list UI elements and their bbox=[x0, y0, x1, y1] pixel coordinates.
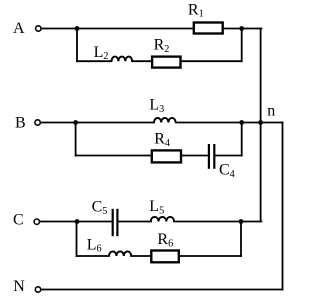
capacitor C4 bbox=[209, 144, 235, 180]
terminal N bbox=[13, 278, 41, 295]
wire phase A main bbox=[42, 28, 194, 30]
capacitor C5 bbox=[92, 199, 118, 237]
inductor L2 bbox=[94, 44, 133, 62]
wire phase C main left bbox=[40, 221, 112, 223]
wire A branch mid bbox=[132, 60, 151, 62]
inductor L6 bbox=[87, 237, 132, 257]
wire C branch left bbox=[77, 255, 110, 257]
wire C main right bbox=[174, 221, 261, 223]
terminal A bbox=[13, 20, 41, 37]
wire A branch right bbox=[181, 60, 242, 62]
junction dot A right bbox=[239, 26, 244, 31]
wire C branch up bbox=[240, 222, 242, 257]
wire C branch mid bbox=[131, 255, 150, 257]
svg-text:n: n bbox=[267, 102, 275, 119]
svg-text:N: N bbox=[13, 278, 25, 295]
junction dot node n bbox=[258, 120, 263, 125]
wire node n to N vertical bbox=[282, 123, 284, 290]
wire B branch left bbox=[76, 155, 151, 157]
junction dot A branch bbox=[75, 26, 80, 31]
wire A branch up bbox=[241, 29, 243, 62]
resistor R2 bbox=[152, 37, 180, 68]
wire B branch down bbox=[75, 123, 77, 156]
wire C branch right bbox=[180, 255, 241, 257]
wire phase B main left bbox=[41, 122, 154, 124]
wire A branch down bbox=[76, 29, 78, 62]
inductor L3 bbox=[149, 97, 175, 123]
inductor L5 bbox=[149, 198, 174, 221]
wire B branch up bbox=[241, 123, 243, 156]
junction dot B right bbox=[239, 120, 244, 125]
wire A after R1 bbox=[224, 28, 261, 30]
junction dot C branch bbox=[75, 219, 80, 224]
junction dot B branch bbox=[73, 120, 78, 125]
resistor R1 bbox=[188, 2, 223, 34]
wire neutral N main bbox=[41, 289, 282, 291]
svg-text:C: C bbox=[13, 212, 24, 229]
resistor R6 bbox=[151, 231, 179, 262]
svg-text:B: B bbox=[15, 115, 26, 132]
wire C between C5 and L5 bbox=[119, 221, 152, 223]
terminal C bbox=[13, 212, 40, 229]
terminal B bbox=[15, 115, 40, 132]
wire C branch down bbox=[76, 222, 78, 257]
wire A branch left bbox=[77, 60, 112, 62]
wire A right vertical to node n bbox=[260, 29, 262, 222]
wire phase B main right bbox=[176, 122, 283, 124]
svg-text:A: A bbox=[13, 20, 25, 37]
wire B branch mid bbox=[181, 155, 208, 157]
resistor R4 bbox=[152, 131, 181, 163]
wire B branch right bbox=[215, 155, 242, 157]
junction dot C right bbox=[239, 219, 244, 224]
